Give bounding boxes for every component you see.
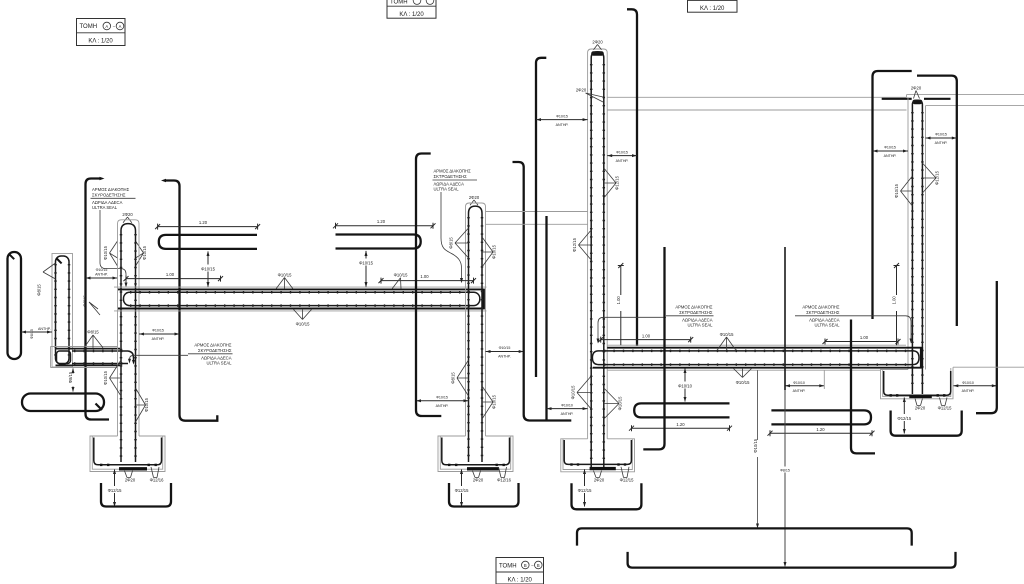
svg-text:Φ10/15: Φ10/15 <box>201 266 215 271</box>
svg-text:ΑΝΤΗΡ.: ΑΝΤΗΡ. <box>962 389 975 393</box>
hairpin bracket under pedestal <box>891 411 962 436</box>
svg-text:Φ10/15: Φ10/15 <box>753 438 758 452</box>
rebar line with bottom-left corner x=997 <box>976 281 997 413</box>
rebar capsule horizontal bottom left <box>22 394 104 412</box>
big bracket B <box>628 552 956 568</box>
label 2F20 wall RW1 cap <box>592 40 603 50</box>
rebar line with bottom-left corner x=664.5 <box>643 247 664 449</box>
dim F10/10 ANTHP right of pedestal <box>953 380 997 393</box>
floor slab thin lines between sections <box>486 212 588 225</box>
label F10/15 rotated left of wall RW2 <box>894 176 912 206</box>
label F10/15 slab top left <box>276 272 293 289</box>
rebar line with bottom-right corner x=851 <box>851 320 875 454</box>
svg-text:Φ10/15: Φ10/15 <box>296 322 310 327</box>
svg-text:ΑΝΤΗΡ.: ΑΝΤΗΡ. <box>793 389 806 393</box>
wall RW2 (right wall of right section) <box>908 97 926 394</box>
dim F10/10 ANTHP below slab2 left <box>547 403 588 416</box>
svg-text:Φ10/15: Φ10/15 <box>359 260 373 265</box>
svg-text:Φ10/10: Φ10/10 <box>962 381 974 385</box>
dim F12/15 under pedestal <box>894 397 915 433</box>
svg-text:Φ10/15: Φ10/15 <box>103 245 108 259</box>
label F12/16 footing F1 <box>150 467 164 483</box>
svg-text:ULTRA SEAL: ULTRA SEAL <box>814 323 840 328</box>
svg-text:Φ10/10: Φ10/10 <box>561 403 573 407</box>
svg-text:ΤΟΜΗ: ΤΟΜΗ <box>390 0 408 5</box>
armos diakopis text block 3 <box>597 305 714 344</box>
dim 1.00 right above slab <box>379 274 477 284</box>
title box TOMH A-A top left <box>77 19 126 46</box>
hairpin bracket under footing F1 <box>101 483 171 507</box>
gray extension below slab2 for dim <box>823 370 825 389</box>
svg-text:Φ12/16: Φ12/16 <box>150 478 164 483</box>
svg-text:ΑΝΤΗΡ.: ΑΝΤΗΡ. <box>498 355 511 359</box>
svg-text:2Φ20: 2Φ20 <box>911 86 922 91</box>
svg-text:Β: Β <box>524 563 527 568</box>
svg-text:1.00: 1.00 <box>892 296 897 305</box>
dark slab edges beside wall RW2 <box>882 98 951 100</box>
svg-text:2Φ20: 2Φ20 <box>592 40 603 45</box>
svg-text:Φ8/15: Φ8/15 <box>780 469 790 473</box>
dim 1.00 left above slab <box>124 272 224 282</box>
svg-text:Φ10/15: Φ10/15 <box>884 146 896 150</box>
label F10/15 slab2 top <box>717 332 736 351</box>
svg-text:ΑΡΜΟΣ ΔΙΑΚΟΠΗΣ: ΑΡΜΟΣ ΔΙΑΚΟΠΗΣ <box>194 343 232 348</box>
svg-text:Φ10/15: Φ10/15 <box>556 114 568 118</box>
dim F10/15 ANTHP left of wall RW1 <box>536 114 588 127</box>
svg-text:Φ10/15: Φ10/15 <box>394 273 408 278</box>
pedestal footing of wall RW2 <box>881 367 1024 399</box>
footing F3 of wall RW1 <box>561 439 635 472</box>
svg-text:2Φ20: 2Φ20 <box>594 478 605 483</box>
svg-text:Φ8/15: Φ8/15 <box>30 329 34 339</box>
svg-text:ΑΡΜΟΣ ΔΙΑΚΟΠΗΣ: ΑΡΜΟΣ ΔΙΑΚΟΠΗΣ <box>675 305 713 310</box>
wall stub capsule far left <box>8 252 22 359</box>
dim F10/15 ANTHP right of wall W2 <box>486 346 524 359</box>
label F12/16 footing F2 <box>497 467 511 483</box>
vertical dim 1.00 left above slab2 <box>616 263 624 345</box>
slab 1 long horizontal <box>114 287 487 311</box>
dim 1.00 horizontal left above slab2 <box>598 333 693 342</box>
svg-text:Α: Α <box>105 24 108 29</box>
svg-text:Φ8/15: Φ8/15 <box>87 330 99 335</box>
label 2F20 wall W2 cap <box>469 195 480 205</box>
upper floor slab thin lines <box>607 95 1024 110</box>
svg-text:ΚΛ : 1/20: ΚΛ : 1/20 <box>508 577 533 583</box>
label F10/15 slab bottom <box>293 309 312 327</box>
label F10/15 rotated right of wall W1 <box>136 241 148 266</box>
label 2F20 pedestal <box>915 398 926 410</box>
dim 1.20 capsule4 <box>768 427 875 436</box>
svg-text:Φ12/15: Φ12/15 <box>455 488 469 493</box>
svg-text:Φ10/15: Φ10/15 <box>616 150 628 154</box>
label F12/15 rotated left of wall RW1 mid <box>572 230 591 260</box>
label 2F20 wall RW1 side <box>576 88 603 103</box>
gray vertical dim x=757.5 with arrow <box>753 370 761 528</box>
svg-text:Φ8/15: Φ8/15 <box>449 237 454 249</box>
svg-text:ΣΚΤΡΟΔΕΤΗΣΗΣ: ΣΚΤΡΟΔΕΤΗΣΗΣ <box>434 174 468 179</box>
boundary bar 4 (top hook left, L bottom right) <box>513 162 572 421</box>
svg-text:ΣΚΤΡΟΔΕΤΗΣΗΣ: ΣΚΤΡΟΔΕΤΗΣΗΣ <box>679 310 713 315</box>
label 2F20 footing F1 <box>125 471 136 483</box>
title box KL 1/20 top right (clipped at top) <box>688 0 738 12</box>
svg-text:ΣΚΥΡΟΔΕΤΗΣΗΣ: ΣΚΥΡΟΔΕΤΗΣΗΣ <box>198 348 232 353</box>
svg-text:Φ12/16: Φ12/16 <box>497 478 511 483</box>
svg-text:Φ12/15: Φ12/15 <box>938 406 952 411</box>
vertical dim 1.00 right above slab2 <box>892 263 900 345</box>
svg-text:Φ10/10: Φ10/10 <box>793 381 805 385</box>
boundary bar 7 (corner top right) <box>873 71 912 319</box>
svg-text:1.00: 1.00 <box>642 333 651 338</box>
svg-text:1.20: 1.20 <box>199 220 208 225</box>
label F8/15 over beam <box>84 330 103 348</box>
svg-text:Φ8/15: Φ8/15 <box>37 284 42 296</box>
label F8/15 rotated left of wall W2 upper <box>449 228 469 258</box>
label F10/15 slab2 bottom <box>733 368 752 385</box>
boundary bar 3 (hooked top, L bottom) <box>416 154 441 417</box>
boundary bar left (hooked top, L bottom) <box>86 177 110 420</box>
svg-text:1.20: 1.20 <box>816 427 825 432</box>
wall RW1 (left wall of right section) <box>588 49 608 468</box>
label F8/15 rotated near slab left end <box>83 295 101 315</box>
dim arrows capsule1-stub2 <box>21 327 52 339</box>
svg-text:1.00: 1.00 <box>420 274 429 279</box>
svg-text:2Φ20: 2Φ20 <box>469 195 480 200</box>
label F8/15 rotated for stub 2 <box>37 263 56 296</box>
label F8/15 rotated left of wall W2 <box>451 360 469 396</box>
svg-text:ULTRA SEAL: ULTRA SEAL <box>92 205 118 210</box>
rebar capsule 3 below slab2 <box>634 403 729 417</box>
svg-text:Φ10/15: Φ10/15 <box>720 332 734 337</box>
vertical dim F10/10 slab2-capsule3 <box>677 368 694 402</box>
svg-text:ΑΝΤΗΡ.: ΑΝΤΗΡ. <box>935 141 948 145</box>
vertical spacing dim F10/15 at x=366 <box>358 250 374 287</box>
title box TOMH B-B bottom middle <box>496 558 544 584</box>
wall stub 2 with stirrup <box>52 254 73 368</box>
svg-text:Φ10/15: Φ10/15 <box>935 133 947 137</box>
svg-text:1.20: 1.20 <box>377 219 386 224</box>
svg-text:ΣΚΤΡΟΔΕΤΗΣΗΣ: ΣΚΤΡΟΔΕΤΗΣΗΣ <box>806 310 840 315</box>
svg-text:Φ10/15: Φ10/15 <box>142 245 147 259</box>
svg-text:1.00: 1.00 <box>166 272 175 277</box>
footing F1 of wall W1 <box>90 436 165 472</box>
svg-text:Φ12/15: Φ12/15 <box>897 416 911 421</box>
svg-text:ΑΝΤΗΡ.: ΑΝΤΗΡ. <box>436 404 449 408</box>
rebar capsule 4 below slab2 <box>771 410 871 424</box>
svg-text:Φ10/15: Φ10/15 <box>571 385 576 399</box>
svg-text:Φ8/15: Φ8/15 <box>451 372 456 384</box>
label F12/15 rotated right of wall RW2 <box>922 163 939 193</box>
label F12/15 footing F3 <box>620 467 634 483</box>
svg-text:Φ12/15: Φ12/15 <box>572 237 577 251</box>
svg-text:ULTRA SEAL: ULTRA SEAL <box>687 323 713 328</box>
wall W1 left (vertical) <box>118 220 140 462</box>
label F10/15 slab top mid-right <box>392 273 408 289</box>
svg-text:1.20: 1.20 <box>676 422 685 427</box>
label 2F20 footing F3 <box>594 471 605 483</box>
label F10/15 rotated left of wall W1 <box>103 241 118 266</box>
svg-text:Φ10/15: Φ10/15 <box>736 380 750 385</box>
svg-text:Φ10/15: Φ10/15 <box>499 346 511 350</box>
boundary bar 8 (top hook left) <box>917 76 957 326</box>
boundary bar 5 (hook right at top) <box>536 58 546 377</box>
title box TOMH B-B top middle (clipped at top) <box>387 0 436 18</box>
svg-text:2Φ20: 2Φ20 <box>576 88 587 93</box>
svg-text:Φ10/15: Φ10/15 <box>436 395 448 399</box>
dim F10/15 ANTHP right of wall W1 below slab <box>139 329 180 342</box>
boundary bar 2 (hooked top, L bottom with end tick) <box>161 179 217 421</box>
big bracket A <box>577 528 912 545</box>
dim F10/10 ANTHP below slab2 mid <box>785 380 824 393</box>
svg-text:Φ8/15: Φ8/15 <box>83 295 88 307</box>
dim 1.20 right with bar <box>333 219 436 229</box>
svg-text:Φ10/15: Φ10/15 <box>103 370 108 384</box>
svg-text:ΤΟΜΗ: ΤΟΜΗ <box>80 24 98 30</box>
dim F10/15 ANTHP left of wall W1 <box>86 268 118 280</box>
foundation beam left (horizontal wall section) <box>51 347 136 368</box>
dim F12/15 under footing F1 <box>104 469 125 506</box>
armos diakopis text block 2 upper (right of section) <box>433 169 478 284</box>
label F12/15 pedestal <box>938 398 952 411</box>
dim F12/15 under footing F3 <box>574 469 595 507</box>
dim F12/15 under footing F2 <box>451 469 472 506</box>
label 2F20 wall W1 cap <box>122 212 133 223</box>
dim 1.20 capsule3 <box>629 422 732 431</box>
svg-text:Φ12/15: Φ12/15 <box>578 488 592 493</box>
svg-text:ΑΝΤΗΡ.: ΑΝΤΗΡ. <box>95 273 108 277</box>
top rebar capsule A <box>159 235 257 249</box>
label 2F20 footing F2 <box>473 471 484 483</box>
slab 2 lower right section <box>592 345 923 370</box>
svg-text:2Φ20: 2Φ20 <box>473 478 484 483</box>
svg-text:ΤΟΜΗ: ΤΟΜΗ <box>499 563 517 569</box>
svg-text:ΚΛ : 1/20: ΚΛ : 1/20 <box>399 12 424 18</box>
footing F2 of wall W2 <box>438 436 513 472</box>
svg-text:ΑΡΜΟΣ ΔΙΑΚΟΠΗΣ: ΑΡΜΟΣ ΔΙΑΚΟΠΗΣ <box>802 305 840 310</box>
hairpin bracket under footing F3 <box>572 483 642 509</box>
vertical dim F8/15 beam-capsule2 <box>68 368 77 392</box>
label F12/15 rotated right of wall RW1 upper <box>604 168 620 198</box>
svg-text:ΚΛ : 1/20: ΚΛ : 1/20 <box>88 38 113 44</box>
svg-text:ΑΝΤΗΡ.: ΑΝΤΗΡ. <box>884 154 897 158</box>
wall W2 right of left section <box>466 203 486 462</box>
svg-text:ΑΝΤΗΡ.: ΑΝΤΗΡ. <box>616 159 629 163</box>
label F10/15 rotated right of wall W2 <box>482 386 497 419</box>
svg-text:ΣΚΥΡΟΔΕΤΗΣΗΣ: ΣΚΥΡΟΔΕΤΗΣΗΣ <box>92 193 126 198</box>
svg-text:ΑΡΜΟΣ ΔΙΑΚΟΠΗΣ: ΑΡΜΟΣ ΔΙΑΚΟΠΗΣ <box>92 187 130 192</box>
armos diakopis text block 1 <box>91 187 136 288</box>
svg-text:Β: Β <box>537 563 540 568</box>
svg-text:Φ12/15: Φ12/15 <box>620 478 634 483</box>
label F10/15 rotated right of wall RW1 lower <box>604 388 623 419</box>
svg-text:ΑΝΤΗΡ.: ΑΝΤΗΡ. <box>38 327 51 331</box>
rebar line x=546.5 <box>545 216 547 421</box>
dim F10/15 ANTHP left of wall W2 <box>416 395 469 408</box>
dim F10/15 ANTHP left of wall RW2 <box>873 146 909 159</box>
svg-text:ΑΝΤΗΡ.: ΑΝΤΗΡ. <box>556 123 569 127</box>
svg-text:ΚΛ : 1/20: ΚΛ : 1/20 <box>700 6 725 12</box>
svg-text:1.00: 1.00 <box>616 296 621 305</box>
svg-text:1.00: 1.00 <box>860 335 869 340</box>
vertical spacing dim F10/15 at x=208 <box>200 251 216 288</box>
top rebar capsule B <box>336 235 421 249</box>
label F10/15 rotated left of wall W1 lower <box>103 360 121 396</box>
dim F10/15 ANTHP right of wall RW2 <box>926 133 957 146</box>
armos diakopis text block 4 <box>795 305 913 344</box>
svg-text:ULTRA SEAL: ULTRA SEAL <box>434 187 460 192</box>
hairpin bracket under footing F2 <box>449 483 519 507</box>
label 2F20 wall RW2 cap <box>911 86 922 99</box>
svg-text:Φ10/15: Φ10/15 <box>152 329 164 333</box>
svg-text:ΑΡΜΟΣ ΔΙΑΚΟΠΗΣ: ΑΡΜΟΣ ΔΙΑΚΟΠΗΣ <box>434 169 472 174</box>
svg-text:2Φ20: 2Φ20 <box>125 478 136 483</box>
label F10/15 rotated right of wall W1 lower <box>136 388 150 422</box>
svg-text:ΑΝΤΗΡ.: ΑΝΤΗΡ. <box>561 412 574 416</box>
svg-text:Φ12/15: Φ12/15 <box>108 488 122 493</box>
svg-text:Φ8/15: Φ8/15 <box>68 371 73 383</box>
svg-text:Φ10/15: Φ10/15 <box>894 183 899 197</box>
svg-text:2Φ20: 2Φ20 <box>915 406 926 411</box>
long vertical dim line x=785 with bottom arrow <box>778 247 792 567</box>
dim F10/15 ANTHP right of wall RW1 <box>607 150 637 163</box>
svg-text:Φ10/15: Φ10/15 <box>278 272 292 277</box>
svg-text:Φ10/10: Φ10/10 <box>678 383 692 388</box>
label F10/15 rotated right of wall W2 upper <box>482 237 497 267</box>
svg-text:Α: Α <box>119 24 122 29</box>
svg-text:2Φ20: 2Φ20 <box>122 212 133 217</box>
svg-text:ΑΝΤΗΡ.: ΑΝΤΗΡ. <box>152 337 165 341</box>
label F10/15 rotated left of wall RW1 lower <box>571 376 592 409</box>
armos diakopis text block 2 (below slab, mid) <box>128 343 233 366</box>
dim 1.00 horizontal right above slab2 <box>823 335 901 344</box>
dim 1.20 left with bar <box>155 220 260 230</box>
svg-text:ULTRA SEAL: ULTRA SEAL <box>206 361 232 366</box>
boundary bar 6 (hook left at top) <box>627 9 637 346</box>
